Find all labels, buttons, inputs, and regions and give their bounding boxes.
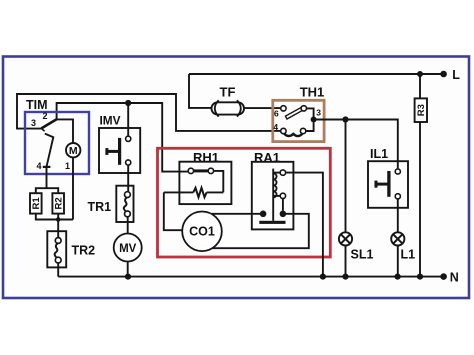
svg-text:1: 1	[65, 161, 70, 171]
node 3 dot	[311, 117, 317, 123]
wire: junction to IMV top pin	[127, 103, 129, 136]
svg-text:3: 3	[31, 118, 36, 128]
svg-text:TIM: TIM	[26, 98, 48, 112]
node: N junction R3	[417, 274, 423, 280]
RA1 armature bar	[259, 221, 285, 224]
wire: pin 4 down to R bus	[46, 167, 48, 188]
RH1 resistor leads	[164, 191, 194, 193]
thermal fuse TF	[212, 100, 245, 116]
resistor R2	[52, 193, 64, 213]
wire: CO1 to RA1 right contact loop	[212, 214, 308, 248]
wire: CO1 to RA1 left contact	[212, 213, 264, 215]
TH1 blade	[285, 106, 304, 119]
RA1 right contact dot	[280, 211, 287, 218]
wire: TR1 to MV	[127, 217, 129, 234]
svg-text:N: N	[450, 271, 459, 285]
resistor R3	[415, 98, 427, 122]
node: N junction SL1	[342, 274, 348, 280]
compressor CO1	[182, 212, 222, 252]
wire: R1 R2 top bus	[36, 188, 58, 193]
node: junction L rail / R3	[417, 71, 423, 77]
wire: IL1 to L1 lamp	[397, 199, 399, 232]
wire: L rail to R3	[419, 74, 421, 98]
wire: junction down to SL1	[345, 120, 347, 233]
red group box	[158, 148, 331, 257]
TIM blade to pin 4	[45, 134, 54, 167]
TIM pin 3 contact tick	[41, 128, 44, 131]
TH1 bottom right contact	[300, 128, 305, 133]
wire: TF to TH1 pin 6	[243, 107, 281, 109]
wire: R1 R2 bottom bus	[36, 214, 73, 220]
node: junction SL1 tap	[342, 116, 348, 122]
RH1 resistor zigzag	[193, 188, 206, 197]
outer blue frame	[3, 57, 469, 299]
wire: node 3 to IL1 and SL1	[314, 120, 398, 169]
IL1 plunger bar	[387, 171, 390, 197]
wire: R2 bottom stub	[57, 214, 59, 220]
RA1 left contact dot	[260, 211, 267, 218]
run relay RA1 box	[252, 162, 294, 230]
RH1 closed contact bar	[194, 169, 209, 172]
IMV plunger bar	[118, 138, 121, 165]
wire: SL1 to N rail	[345, 246, 347, 277]
IMV top pin	[126, 136, 131, 141]
node: diamond junction above TR2	[55, 216, 61, 222]
TIM switch blade 3-2	[41, 119, 56, 128]
timer TIM box	[25, 112, 89, 174]
TR2 bimetal squiggle	[55, 243, 58, 257]
svg-text:SL1: SL1	[351, 248, 374, 262]
fan motor MV	[114, 234, 142, 262]
wire: middle contact to right dot	[282, 199, 284, 211]
TR2 top contact	[55, 238, 61, 244]
resistor R1	[30, 193, 42, 213]
IMV stem	[107, 150, 120, 153]
thermostat TR2 box	[47, 231, 66, 267]
TH1 pin 4	[281, 128, 286, 133]
wire: bottom contact up to node 3	[306, 123, 314, 132]
terminal N	[440, 273, 447, 280]
wire: RH1 resistor down to CO1	[164, 192, 183, 230]
svg-text:R1: R1	[31, 197, 42, 210]
IL1 bottom pin	[395, 194, 400, 199]
RA1 top contact stub	[273, 172, 280, 174]
svg-text:TR1: TR1	[88, 200, 112, 214]
TR1 bimetal squiggle	[124, 197, 127, 211]
lamp SL1	[339, 232, 352, 245]
RA1 middle contact	[280, 193, 285, 198]
TIM pin 4 contact tick	[43, 166, 51, 168]
svg-text:M: M	[69, 145, 78, 157]
wire: MV to N rail	[127, 262, 129, 277]
svg-text:R2: R2	[54, 197, 65, 209]
wire: RA1 output to N rail	[286, 173, 323, 277]
node: N junction under MV	[125, 274, 131, 280]
svg-text:CO1: CO1	[189, 225, 215, 239]
RA1 top contact	[280, 170, 285, 175]
RA1 middle contact stub	[273, 195, 280, 197]
lamp L1	[391, 232, 404, 245]
wire: RH1 contact to internal corner	[214, 171, 224, 193]
svg-text:6: 6	[274, 108, 279, 118]
wire: L rail	[189, 73, 444, 75]
door switch IMV box	[99, 128, 140, 173]
svg-text:RH1: RH1	[193, 150, 219, 165]
node: junction above IMV	[125, 100, 131, 106]
terminal L	[440, 71, 447, 78]
lamp switch IL1 box	[368, 161, 408, 208]
wire: N rail	[58, 276, 443, 278]
svg-text:L: L	[452, 68, 460, 82]
TR1 top contact	[125, 192, 131, 198]
wire: TR2 to N rail	[57, 263, 59, 277]
wire: top contact to node 3	[307, 108, 314, 119]
wire: IMV to TR1	[127, 165, 129, 191]
IMV bottom pin	[126, 160, 131, 165]
svg-text:R3: R3	[416, 104, 427, 116]
IL1 stem end tick	[375, 181, 378, 188]
TH1 bimetal wavy	[284, 133, 303, 136]
wire: junction to TR2	[57, 220, 59, 239]
RH1 left contact	[188, 168, 193, 173]
motor M of TIM	[66, 143, 80, 157]
svg-text:4: 4	[273, 122, 278, 132]
starting relay RH1 box	[179, 162, 231, 204]
TR1 bottom contact	[125, 211, 131, 217]
wire: R3 to N rail	[419, 122, 421, 277]
svg-text:2: 2	[42, 111, 47, 121]
wire: TIM pin 2 to junction and down to RH1	[57, 103, 188, 172]
svg-text:TF: TF	[220, 85, 236, 100]
RA1 plunger line	[272, 169, 274, 221]
svg-text:3: 3	[316, 108, 321, 118]
svg-text:TH1: TH1	[300, 85, 325, 100]
svg-text:MV: MV	[119, 243, 137, 255]
wire: L rail down to TF	[189, 74, 212, 108]
wire: pin 2 contact to motor	[57, 119, 73, 143]
svg-text:TR2: TR2	[72, 244, 96, 258]
RH1 right contact	[208, 168, 213, 173]
wire: left loop from TIM pin 3 to TH1 pin 4	[17, 94, 281, 131]
svg-text:IMV: IMV	[100, 114, 121, 128]
TH1 pin 6	[281, 106, 286, 111]
svg-text:L1: L1	[401, 248, 416, 262]
svg-text:4: 4	[36, 161, 41, 171]
RA1 coil	[273, 173, 276, 197]
node: N junction L1	[395, 274, 401, 280]
IL1 stem	[376, 183, 389, 186]
wire: motor to bottom bus (pin 1)	[72, 157, 74, 219]
node: N junction RA1 output	[320, 274, 326, 280]
TR2 bottom contact	[55, 257, 61, 263]
thermostat TH1 box	[273, 100, 324, 141]
thermal protector TR1 box	[116, 186, 133, 222]
IMV stem end tick	[105, 148, 108, 155]
IL1 top pin	[395, 169, 400, 174]
svg-text:IL1: IL1	[370, 147, 388, 161]
wire: L1 to N rail	[397, 246, 399, 277]
TH1 top right contact	[301, 106, 306, 111]
